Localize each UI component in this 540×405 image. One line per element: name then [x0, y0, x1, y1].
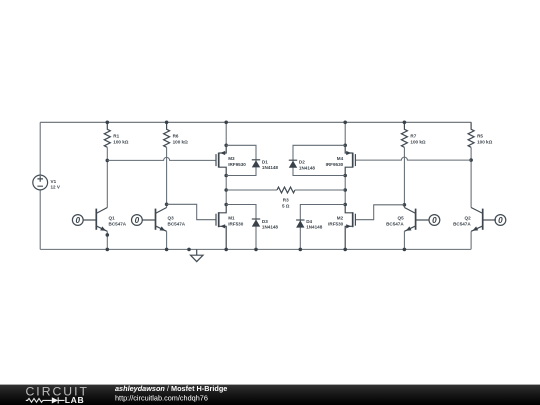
resistor R5 [468, 122, 474, 147]
svg-text:Q5: Q5 [398, 216, 405, 221]
node left trunk top rail [224, 121, 228, 125]
svg-text:0: 0 [135, 216, 140, 225]
svg-text:M2: M2 [337, 216, 344, 221]
node bottom rail M1 source [224, 248, 228, 252]
input source O1 [72, 215, 83, 226]
svg-text:D4: D4 [306, 219, 312, 224]
node top rail R7 [403, 121, 407, 125]
resistor R3 [226, 189, 277, 191]
svg-text:100 kΩ: 100 kΩ [173, 139, 188, 144]
svg-text:M1: M1 [228, 216, 235, 221]
node M1 drain / D3 top [224, 203, 228, 207]
resistor R7 [401, 122, 407, 147]
wire R1 bottom to Q1 collector [106, 147, 108, 207]
node bottom rail D4 [299, 248, 303, 252]
svg-text:0: 0 [498, 216, 503, 225]
svg-text:IRF9530: IRF9530 [228, 162, 246, 167]
transistor Q3 BC547A [142, 208, 166, 232]
node R3 right [343, 188, 347, 192]
wire right trunk upper (VCC to M4 source) [344, 122, 346, 145]
diode D4 1N4148 [296, 205, 345, 250]
node M3 source / D1 top [224, 144, 228, 148]
wire R6 bottom to Q3 collector [166, 147, 168, 207]
svg-text:Q3: Q3 [168, 216, 175, 221]
svg-text:100 kΩ: 100 kΩ [113, 139, 128, 144]
transistor Q2 BC547A [471, 208, 496, 232]
mosfet M2 IRF530 [345, 205, 355, 250]
wire left trunk upper (VCC to M3 source) [225, 122, 227, 145]
node M2 drain / D4 top [343, 203, 347, 207]
svg-text:LAB: LAB [65, 395, 84, 405]
svg-text:Q1: Q1 [109, 216, 116, 221]
node M4 drain / D2 bottom [343, 174, 347, 178]
wire Q2 emitter to rail [470, 231, 472, 249]
svg-text:BC547A: BC547A [386, 222, 404, 227]
wire left trunk mid (M3 drain to M1 drain) [225, 176, 227, 205]
wire Q5 emitter to rail [403, 231, 405, 249]
wire R7 bottom to Q5 collector [403, 147, 405, 207]
logo diode [52, 397, 58, 403]
resistor R6 [164, 122, 170, 147]
node Q5 emitter rail [403, 248, 407, 252]
node R3 left [224, 188, 228, 192]
transistor Q5 BC547A [404, 208, 429, 232]
svg-text:BC547A: BC547A [109, 222, 127, 227]
node bottom rail D3 [254, 248, 258, 252]
logo resistor zigzag [26, 399, 52, 403]
svg-text:5 Ω: 5 Ω [282, 203, 290, 208]
svg-text:1N4148: 1N4148 [262, 165, 279, 170]
wire M4 gate net (hop over R7) [355, 157, 471, 160]
svg-text:M3: M3 [228, 156, 235, 161]
svg-text:D2: D2 [299, 160, 305, 165]
node right trunk top rail [343, 121, 347, 125]
svg-text:R1: R1 [113, 133, 119, 138]
mosfet M3 IRF9530 [216, 145, 226, 175]
diode D2 1N4148 [289, 145, 345, 175]
node bottom rail near ground [187, 248, 191, 252]
svg-text:0: 0 [76, 216, 81, 225]
wire R5 bottom to Q2 collector [470, 147, 472, 207]
input source O2 [495, 215, 506, 226]
node bottom rail M2 source [343, 248, 347, 252]
svg-text:IRF9530: IRF9530 [326, 162, 344, 167]
wire right trunk mid (M4 drain to M2 drain) [344, 176, 346, 205]
svg-text:1N4148: 1N4148 [299, 165, 316, 170]
svg-text:R7: R7 [410, 133, 416, 138]
wire Q1 emitter to rail [106, 231, 108, 249]
svg-text:R3: R3 [283, 197, 289, 202]
input source O3 [132, 215, 143, 226]
wire bottom rail (ground net) [40, 248, 471, 250]
svg-text:D3: D3 [262, 219, 268, 224]
node M4 source / D2 top [343, 144, 347, 148]
input source O5 [429, 215, 440, 226]
wire M1 gate net from Q3 collector node [167, 204, 216, 219]
node top rail R6 [165, 121, 169, 125]
svg-text:0: 0 [432, 216, 437, 225]
svg-text:BC547A: BC547A [453, 222, 471, 227]
svg-text:1N4148: 1N4148 [262, 225, 279, 230]
wire Q3 emitter to rail [166, 231, 168, 249]
wire M3 gate net (hop over R6) [107, 157, 216, 160]
voltage source V1 [33, 175, 48, 190]
node R5/M4-gate wire [469, 158, 473, 162]
node M3 drain / D1 bottom [224, 174, 228, 178]
diode D1 1N4148 [226, 145, 260, 175]
node R7/Q5/M2-gate [403, 203, 407, 207]
svg-text:V1: V1 [51, 179, 57, 184]
svg-text:100 kΩ: 100 kΩ [410, 139, 425, 144]
wire top rail [40, 121, 471, 123]
svg-text:ashleydawson / Mosfet H-Bridge: ashleydawson / Mosfet H-Bridge [115, 384, 227, 393]
resistor R1 [104, 122, 110, 147]
node Q3 emitter rail [165, 248, 169, 252]
mosfet M4 IRF9530 [345, 145, 355, 175]
diode D3 1N4148 [226, 205, 260, 250]
node R1/Q1/M3-gate [106, 159, 110, 163]
node R6/Q3/M1-gate [165, 203, 169, 207]
ground [191, 249, 204, 261]
transistor Q1 BC547A [83, 208, 107, 232]
wire M2 gate net to Q5 collector node [355, 205, 404, 220]
node Q1 emitter rail [106, 248, 110, 252]
svg-text:http://circuitlab.com/chdqh76: http://circuitlab.com/chdqh76 [115, 394, 208, 403]
svg-text:D1: D1 [262, 159, 268, 164]
svg-text:100 kΩ: 100 kΩ [477, 139, 492, 144]
svg-text:BC547A: BC547A [168, 222, 186, 227]
footer bar [0, 385, 540, 405]
svg-text:Q2: Q2 [465, 216, 472, 221]
mosfet M1 IRF530 [216, 205, 226, 250]
wire V1 bottom lead [39, 190, 41, 249]
svg-text:R6: R6 [173, 133, 179, 138]
node Q1 emitter mid dot [106, 233, 110, 237]
svg-text:IRF530: IRF530 [228, 222, 244, 227]
wire V1 top lead [39, 122, 41, 175]
svg-text:M4: M4 [337, 156, 344, 161]
svg-text:12 V: 12 V [51, 185, 61, 190]
svg-text:IRF530: IRF530 [328, 222, 344, 227]
svg-text:1N4148: 1N4148 [306, 225, 323, 230]
svg-text:R5: R5 [477, 133, 483, 138]
node top rail R1 [106, 121, 110, 125]
